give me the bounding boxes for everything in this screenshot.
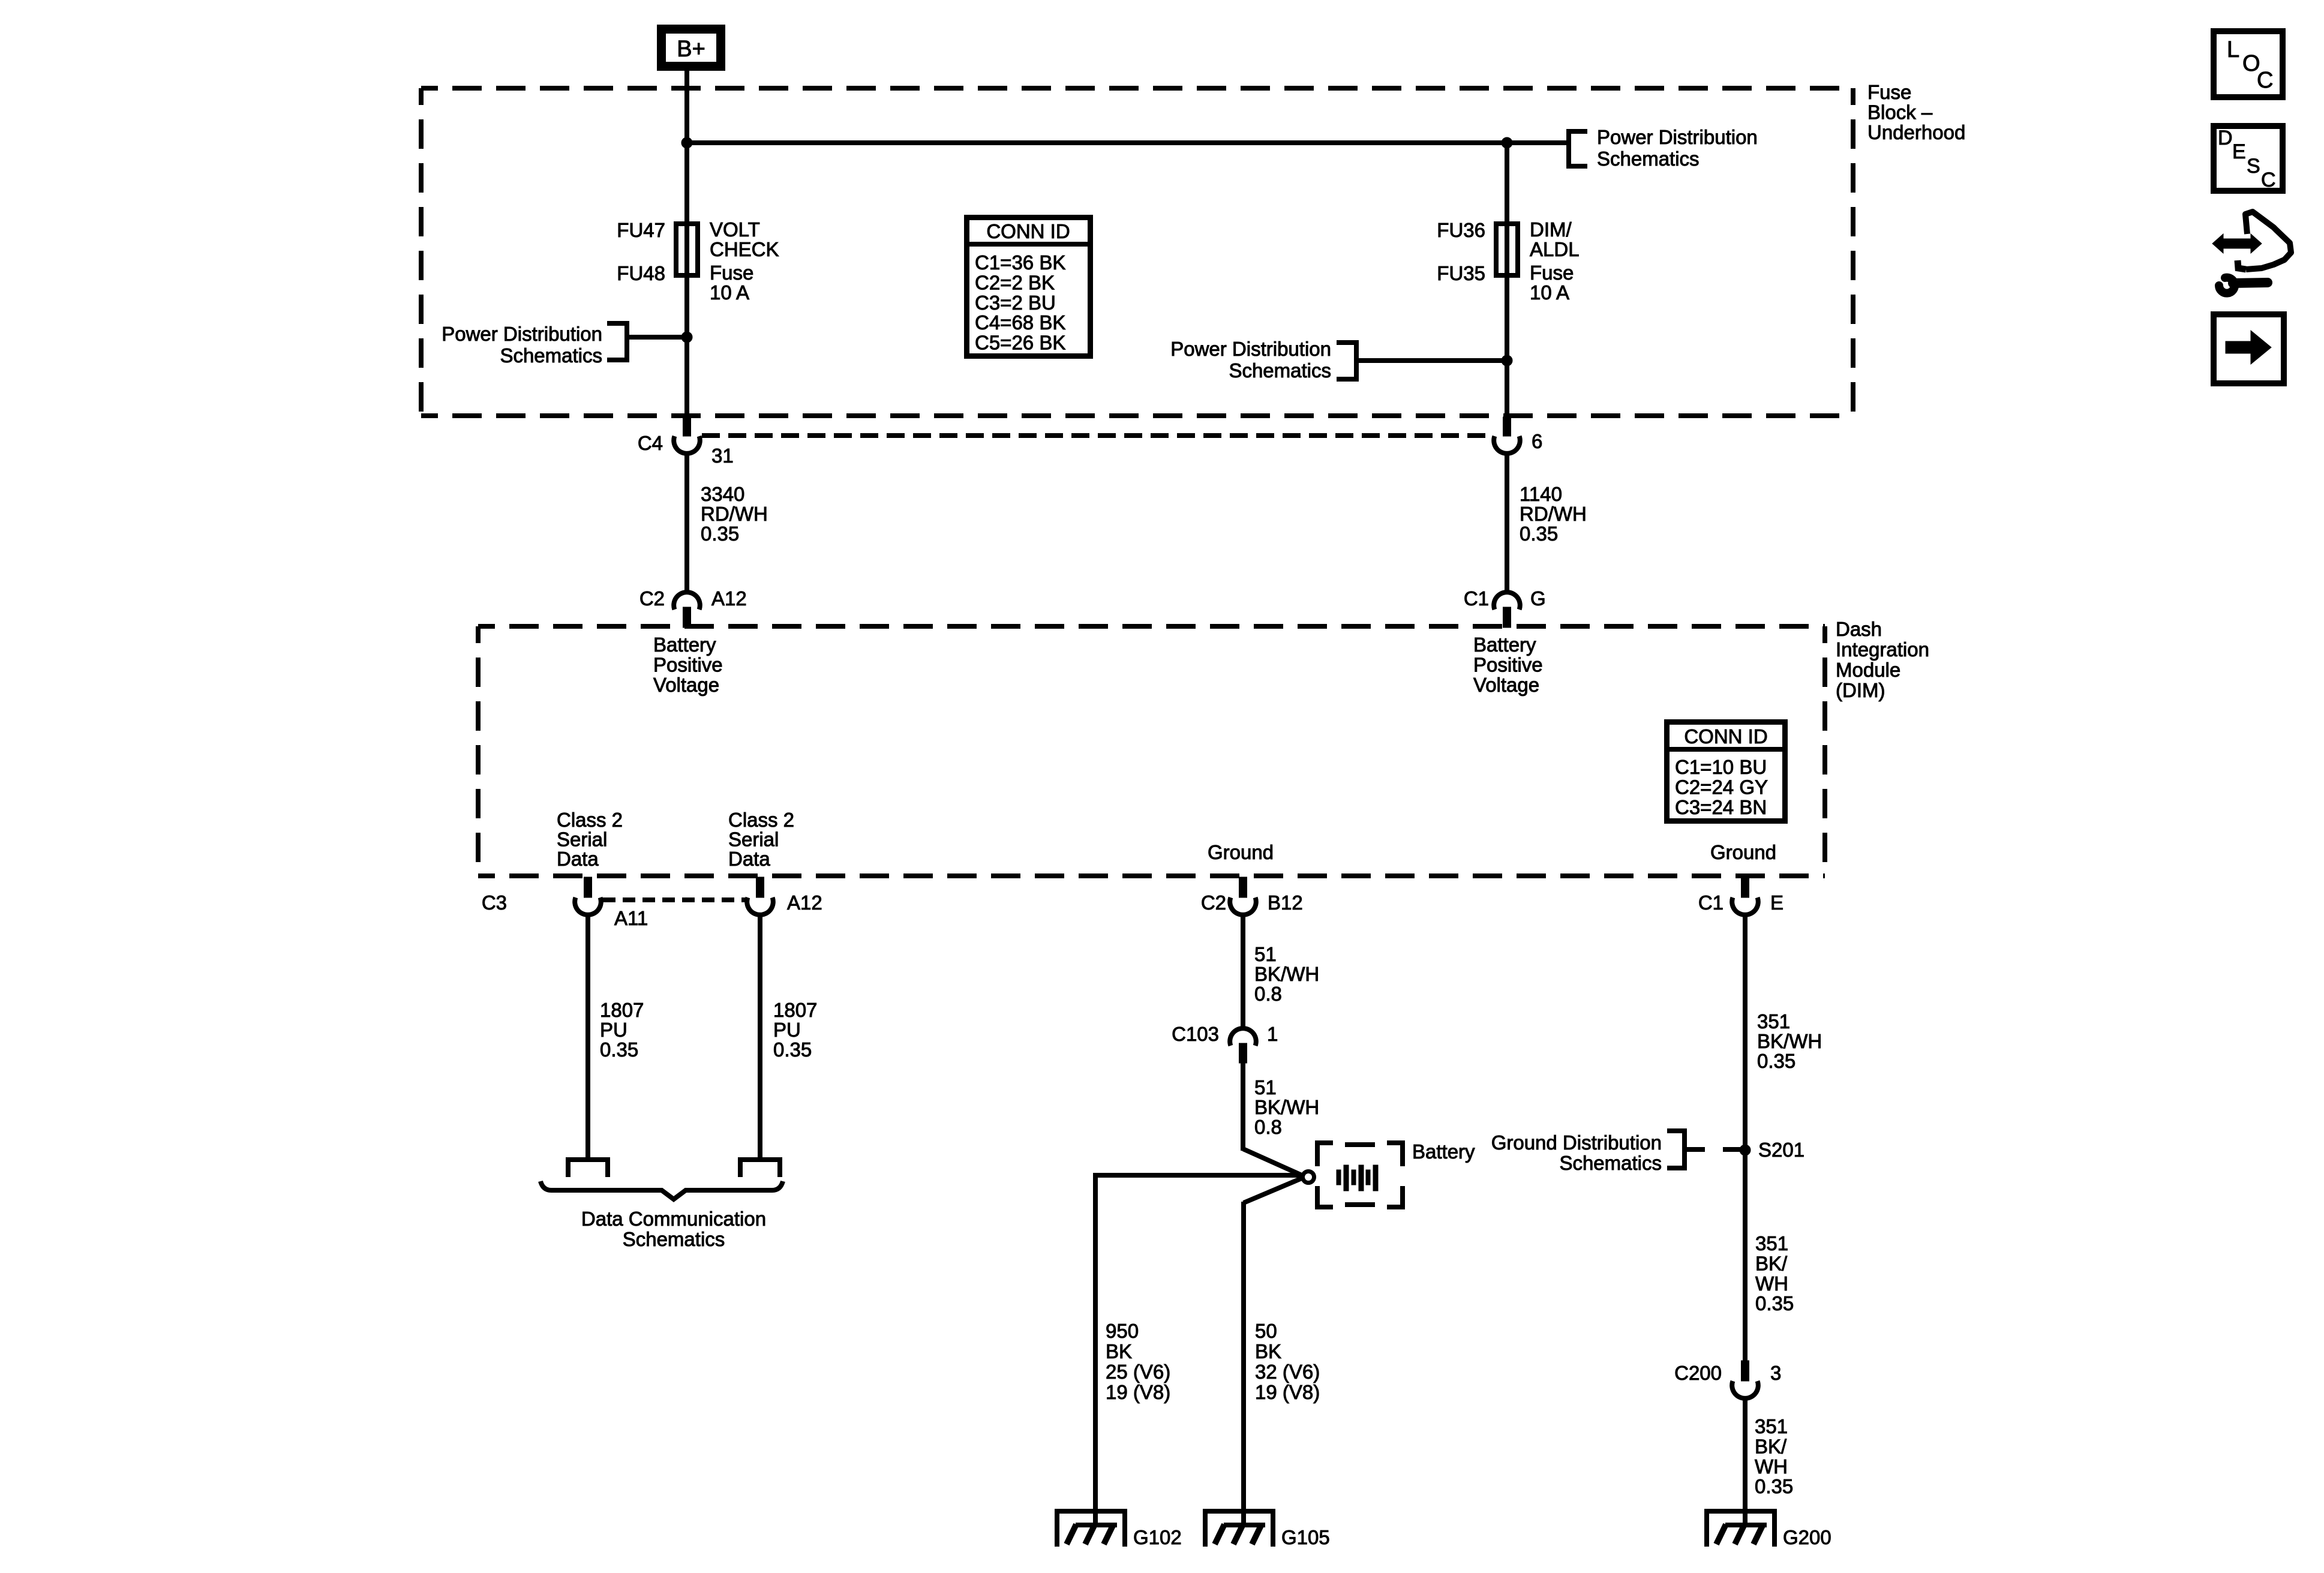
svg-text:Class 2: Class 2 (728, 809, 794, 831)
wire callout link S201 (1687, 1147, 1741, 1152)
svg-text:BK/: BK/ (1755, 1435, 1787, 1457)
connector C1 pin E (DIM bottom) (1698, 877, 1783, 915)
fuse FU36/FU35 DIM/ALDL 10 A (1437, 218, 1579, 304)
svg-text:1: 1 (1267, 1023, 1278, 1045)
svg-text:C3: C3 (482, 891, 507, 914)
svg-text:Power Distribution: Power Distribution (1597, 126, 1758, 148)
wire 351 BK/WH 0.35 (middle) (1755, 1232, 1794, 1314)
svg-text:1807: 1807 (600, 999, 644, 1021)
svg-text:0.35: 0.35 (1755, 1292, 1794, 1314)
connector C103 pin 1 (1172, 1023, 1278, 1063)
battery plates icon (1337, 1165, 1378, 1191)
svg-text:10 A: 10 A (1530, 281, 1569, 304)
svg-text:51: 51 (1254, 943, 1277, 965)
svg-text:C1: C1 (1698, 891, 1724, 914)
svg-text:BK/: BK/ (1755, 1252, 1788, 1274)
wire 1807 PU 0.35 (C3) (585, 915, 590, 1157)
svg-text:WH: WH (1755, 1455, 1788, 1478)
svg-text:0.35: 0.35 (701, 523, 739, 545)
svg-text:C4=68 BK: C4=68 BK (975, 311, 1065, 334)
wire callout link (left) (627, 335, 687, 340)
svg-text:G: G (1530, 587, 1546, 610)
svg-text:PU: PU (773, 1019, 801, 1041)
svg-text:E: E (1770, 891, 1783, 914)
node Battery Positive Voltage (right) (1473, 634, 1543, 696)
wire top bus (687, 140, 1568, 145)
fuse FU47/FU48 VOLT CHECK 10 A (617, 218, 779, 304)
battery B+ dashed box (1317, 1143, 1403, 1207)
wire 51 BK/WH 0.8 (lower) (1241, 1063, 1245, 1151)
svg-text:Serial: Serial (557, 828, 607, 851)
wire 351 BK/WH 0.35 (lower) (1743, 1398, 1747, 1525)
svg-text:Block –: Block – (1867, 101, 1933, 124)
svg-text:C3=24 BN: C3=24 BN (1675, 796, 1767, 818)
svg-text:Positive: Positive (1473, 654, 1543, 676)
junction B+ bus (681, 137, 692, 148)
svg-text:CONN ID: CONN ID (1684, 725, 1767, 748)
Dash Integration Module dashed box (478, 626, 1825, 876)
svg-text:Battery: Battery (1473, 634, 1536, 656)
svg-text:Fuse: Fuse (710, 262, 753, 284)
svg-text:C200: C200 (1674, 1362, 1722, 1384)
svg-text:3340: 3340 (701, 483, 744, 505)
svg-text:BK/WH: BK/WH (1757, 1030, 1822, 1052)
svg-text:C103: C103 (1172, 1023, 1219, 1045)
svg-text:Underhood: Underhood (1867, 121, 1965, 143)
splice ring terminal (1303, 1172, 1314, 1183)
wire 351 BK/WH 0.35 (upper) (1743, 915, 1747, 1361)
svg-text:C1=10 BU: C1=10 BU (1675, 756, 1767, 778)
icon forward arrow (2214, 314, 2284, 383)
svg-text:0.35: 0.35 (773, 1038, 812, 1061)
svg-text:6: 6 (1532, 430, 1542, 452)
svg-text:RD/WH: RD/WH (701, 503, 768, 525)
svg-text:Battery: Battery (1412, 1140, 1475, 1163)
svg-text:A11: A11 (614, 907, 648, 929)
svg-text:1140: 1140 (1520, 483, 1562, 505)
junction bus to FU36 branch (1502, 137, 1512, 148)
svg-text:19 (V8): 19 (V8) (1255, 1381, 1320, 1403)
callout Power Distribution Schematics (left) (442, 323, 627, 367)
svg-text:FU48: FU48 (617, 262, 665, 284)
svg-text:FU36: FU36 (1437, 219, 1485, 241)
wire 51 BK/WH 0.8 (upper) (1241, 915, 1245, 1027)
wire B+ to fuse FU47/FU48 (684, 71, 689, 418)
svg-text:Positive: Positive (653, 654, 723, 676)
svg-text:A12: A12 (787, 891, 822, 914)
svg-text:BK/WH: BK/WH (1254, 963, 1319, 985)
svg-text:351: 351 (1755, 1232, 1788, 1254)
svg-text:BK/WH: BK/WH (1254, 1096, 1319, 1118)
ground G105 (1205, 1511, 1330, 1548)
wire callout link (right mid) (1356, 358, 1507, 363)
ground G102 (1057, 1511, 1182, 1548)
svg-text:Power Distribution: Power Distribution (442, 323, 602, 345)
svg-text:RD/WH: RD/WH (1520, 503, 1587, 525)
svg-text:CONN ID: CONN ID (986, 220, 1070, 242)
wire 50 BK (1241, 1202, 1246, 1525)
svg-text:Schematics: Schematics (623, 1228, 725, 1250)
svg-text:Schematics: Schematics (1559, 1152, 1662, 1174)
connector C1 pin 6 (fuse block) (1494, 417, 1542, 454)
wire splice diagonal upper (1243, 1149, 1302, 1175)
connector C1 pin G (DIM top right) (1464, 587, 1546, 628)
svg-text:0.35: 0.35 (1757, 1050, 1795, 1072)
connector A12 (DIM bottom) (747, 877, 822, 915)
icon data link connector (dog head, arrows, wrench) (2212, 212, 2291, 293)
svg-text:10 A: 10 A (710, 281, 749, 304)
label Fuse Block - Underhood (1867, 81, 1965, 143)
CONN ID table (fuse block) (966, 218, 1093, 356)
callout Ground Distribution Schematics (1491, 1131, 1685, 1174)
svg-text:Schematics: Schematics (1229, 359, 1331, 382)
svg-text:S: S (2247, 155, 2260, 178)
svg-text:C3=2 BU: C3=2 BU (975, 292, 1056, 314)
svg-text:Ground: Ground (1710, 841, 1776, 863)
svg-text:G200: G200 (1783, 1526, 1831, 1548)
wire dotted connector row C4-6 (702, 433, 1492, 438)
svg-text:0.8: 0.8 (1254, 1116, 1282, 1138)
connector C2 pin A12 (DIM top left) (639, 587, 747, 628)
connector C200 pin 3 (1674, 1361, 1781, 1398)
wire FU36 branch drop (1505, 143, 1509, 418)
node Class 2 Serial Data (C3) (557, 809, 623, 870)
terminal (C3 wire) (568, 1160, 608, 1177)
svg-text:Voltage: Voltage (653, 674, 719, 696)
svg-text:C: C (2257, 68, 2273, 93)
svg-text:Integration: Integration (1836, 638, 1929, 661)
svg-text:Ground Distribution: Ground Distribution (1491, 1131, 1662, 1154)
svg-text:BK: BK (1255, 1340, 1281, 1362)
svg-text:Class 2: Class 2 (557, 809, 623, 831)
svg-text:0.35: 0.35 (600, 1038, 638, 1061)
svg-text:C5=26 BK: C5=26 BK (975, 332, 1065, 354)
svg-text:0.35: 0.35 (1755, 1475, 1793, 1497)
svg-text:C2=2 BK: C2=2 BK (975, 271, 1055, 293)
ground G200 (1707, 1511, 1831, 1548)
svg-text:32 (V6): 32 (V6) (1255, 1361, 1320, 1383)
svg-text:ALDL: ALDL (1530, 238, 1580, 260)
svg-text:19 (V8): 19 (V8) (1106, 1381, 1170, 1403)
svg-text:WH: WH (1755, 1272, 1788, 1295)
callout Power Distribution Schematics (top right) (1569, 126, 1758, 170)
svg-text:B+: B+ (677, 37, 705, 62)
svg-text:Schematics: Schematics (500, 344, 602, 367)
svg-text:A12: A12 (711, 587, 747, 610)
wire 3340 RD/WH 0.35 (684, 454, 689, 592)
svg-text:PU: PU (600, 1019, 627, 1041)
svg-text:D: D (2218, 127, 2233, 149)
svg-text:C: C (2261, 169, 2276, 191)
wire splice horizontal (1095, 1173, 1303, 1178)
svg-text:0.35: 0.35 (1520, 523, 1558, 545)
node Class 2 Serial Data (A12) (728, 809, 794, 870)
svg-text:Data: Data (728, 848, 770, 870)
node Battery Positive Voltage (left) (653, 634, 723, 696)
Fuse Block - Underhood dashed box (421, 88, 1853, 416)
icon DESC (2214, 126, 2283, 191)
connector C4 pin 31 (638, 417, 734, 467)
svg-text:CHECK: CHECK (710, 238, 779, 260)
wire 1807 PU 0.35 (A12) (758, 915, 762, 1157)
svg-text:Power Distribution: Power Distribution (1170, 338, 1331, 360)
svg-text:Battery: Battery (653, 634, 716, 656)
CONN ID table (DIM) (1664, 722, 1788, 821)
svg-text:C1: C1 (1464, 587, 1489, 610)
svg-text:L: L (2227, 37, 2239, 62)
svg-text:C2: C2 (639, 587, 665, 610)
svg-text:(DIM): (DIM) (1836, 679, 1885, 701)
svg-text:50: 50 (1255, 1320, 1277, 1342)
junction on FU47 feed (681, 332, 692, 343)
svg-text:C1=36 BK: C1=36 BK (975, 251, 1065, 274)
callout Power Distribution Schematics (right mid) (1170, 338, 1356, 382)
svg-text:950: 950 (1106, 1320, 1139, 1342)
svg-text:FU47: FU47 (617, 219, 665, 241)
svg-text:Module: Module (1836, 659, 1900, 681)
svg-text:Ground: Ground (1208, 841, 1274, 863)
junction on FU36 drop (1502, 355, 1512, 366)
brace Data Communication Schematics (541, 1181, 783, 1199)
svg-text:Serial: Serial (728, 828, 779, 851)
svg-text:31: 31 (711, 445, 734, 467)
power node B+ (662, 29, 721, 67)
svg-text:G105: G105 (1281, 1526, 1330, 1548)
svg-text:FU35: FU35 (1437, 262, 1485, 284)
svg-text:351: 351 (1755, 1415, 1788, 1437)
terminal (A12 wire) (740, 1160, 780, 1177)
wire 950 BK (1093, 1173, 1098, 1525)
svg-text:51: 51 (1254, 1076, 1277, 1098)
svg-text:Data Communication: Data Communication (581, 1208, 766, 1230)
svg-text:Schematics: Schematics (1597, 148, 1700, 170)
svg-text:0.8: 0.8 (1254, 983, 1282, 1005)
svg-text:Fuse: Fuse (1530, 262, 1574, 284)
svg-text:25 (V6): 25 (V6) (1106, 1361, 1170, 1383)
svg-text:3: 3 (1770, 1362, 1781, 1384)
svg-text:G102: G102 (1133, 1526, 1182, 1548)
svg-text:Fuse: Fuse (1867, 81, 1911, 103)
svg-text:BK: BK (1106, 1340, 1132, 1362)
icon LOC (2214, 31, 2283, 97)
svg-text:VOLT: VOLT (710, 218, 760, 241)
wire 1140 RD/WH 0.35 (1505, 454, 1509, 592)
wire splice diagonal lower (1244, 1178, 1302, 1203)
svg-text:B12: B12 (1268, 891, 1303, 914)
svg-text:Data: Data (557, 848, 599, 870)
svg-text:C2=24 GY: C2=24 GY (1675, 776, 1768, 798)
connector C2 pin B12 (DIM bottom) (1201, 877, 1303, 915)
svg-text:S201: S201 (1758, 1139, 1804, 1161)
wire dotted connector row A11 (603, 897, 745, 902)
label Data Communication Schematics (581, 1208, 766, 1250)
svg-text:DIM/: DIM/ (1530, 218, 1572, 241)
svg-text:C2: C2 (1201, 891, 1226, 914)
svg-text:Voltage: Voltage (1473, 674, 1539, 696)
svg-text:1807: 1807 (773, 999, 817, 1021)
svg-text:E: E (2232, 140, 2246, 163)
svg-text:C4: C4 (638, 432, 663, 454)
svg-text:351: 351 (1757, 1010, 1790, 1032)
svg-text:Dash: Dash (1836, 618, 1882, 640)
label Dash Integration Module (DIM) (1836, 618, 1929, 701)
connector C3 (DIM bottom) (482, 877, 601, 915)
splice S201 (1740, 1139, 1804, 1161)
